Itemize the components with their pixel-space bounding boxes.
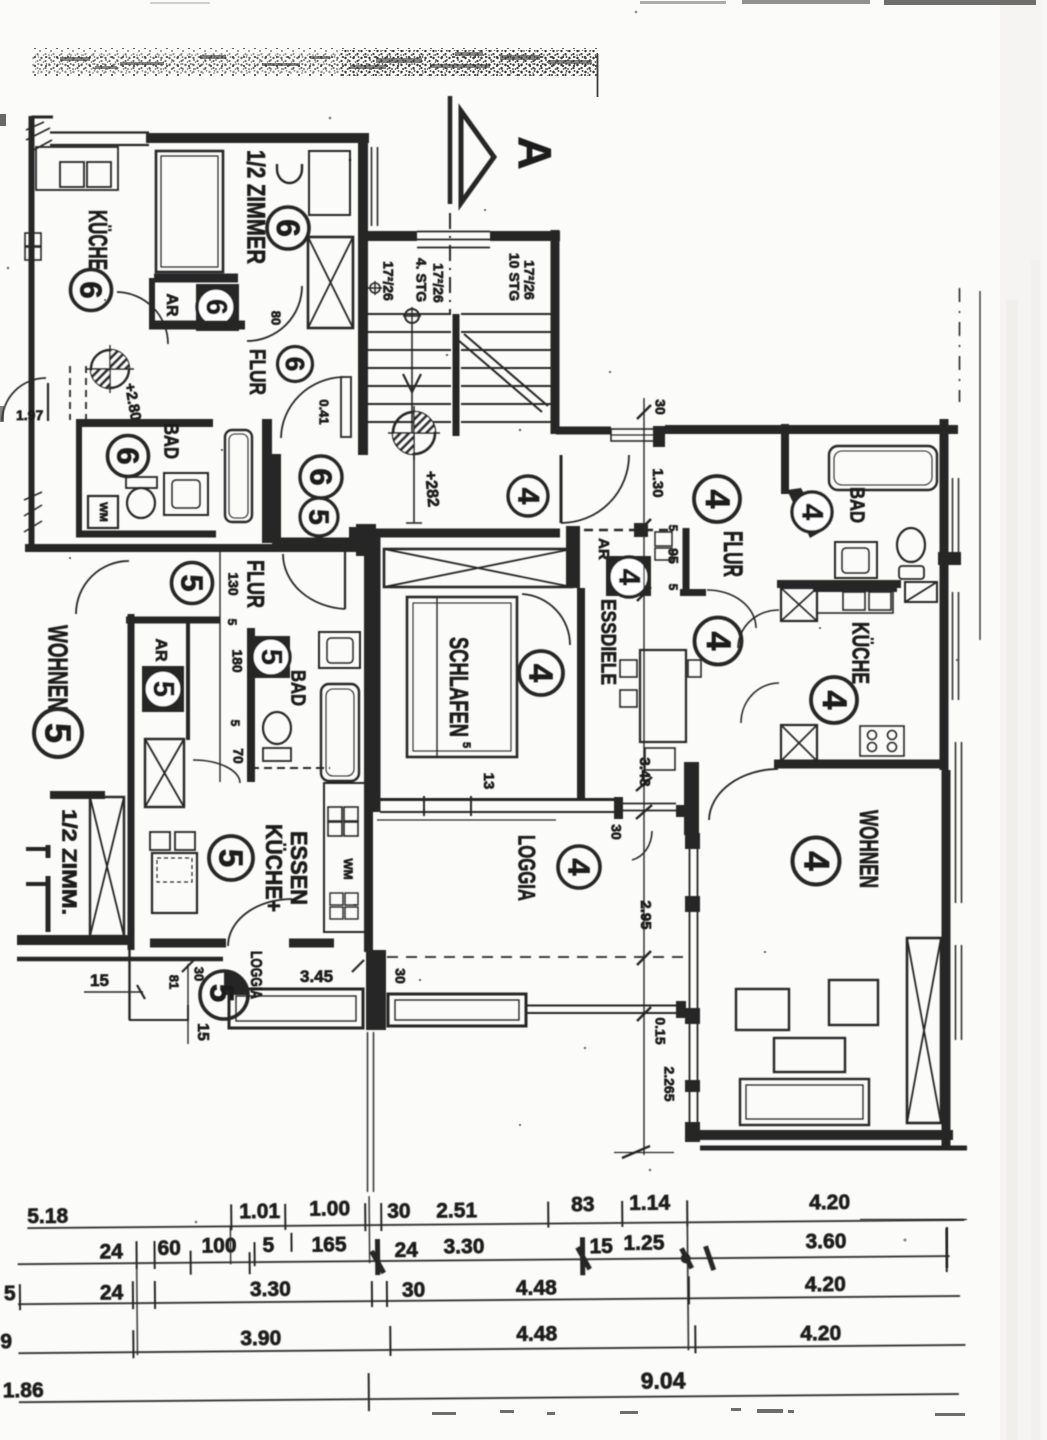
svg-text:FLUR: FLUR [245,349,270,395]
svg-text:4.20: 4.20 [800,1322,841,1345]
svg-text:2.265: 2.265 [661,1066,677,1101]
dim row 4 line [18,1345,965,1353]
level marker circle flur6 [86,345,134,393]
AR6 left wall [149,278,155,325]
svg-text:4. STG: 4. STG [413,258,429,302]
bad4 bottom wall [777,580,901,588]
tick y812 [636,805,652,819]
svg-text:2.95: 2.95 [637,900,654,929]
svg-text:81: 81 [167,975,182,989]
zimm5 west wall lower [46,876,51,932]
dim line vertical loggia5 [187,964,189,1044]
svg-text:3.90: 3.90 [240,1327,281,1350]
x-box küche4 bottom [781,725,817,761]
dashed line küche5 top [251,767,330,769]
svg-text:AR: AR [152,638,169,662]
circle 5 wohnen [34,709,82,757]
1/2 zimm top wall [50,791,105,799]
svg-text:4: 4 [699,632,737,651]
small cabinets essdiele [655,532,672,546]
door leaf black bad5 [252,636,290,678]
door arc küche5 bottom [228,899,292,946]
svg-text:4: 4 [512,488,545,505]
svg-text:WOHNEN: WOHNEN [43,625,74,711]
svg-text:165: 165 [311,1233,347,1256]
loggia5 left border [128,950,130,1020]
circle 4 loggia [558,846,600,888]
circle 4 essdiele [539,581,549,591]
wash basin [277,164,302,183]
circle 4 flur [694,476,740,522]
svg-text:FLUR: FLUR [242,560,269,608]
svg-text:3.30: 3.30 [250,1278,291,1301]
door arc schlafen [522,594,570,645]
circle 6 bad [108,436,149,477]
küche5 bottom wall left [150,939,226,948]
lobby left wall [272,454,281,547]
svg-text:5: 5 [4,1282,16,1305]
apt4 top wall [665,425,958,434]
circle 4 schlafen [519,651,563,695]
zimm5 west wall upper [46,845,51,858]
right wall apt6 / stair [358,142,368,455]
circle 5 AR [144,670,182,708]
mullion blocks [685,833,700,849]
window lines right [955,742,957,903]
corridor wall long [25,544,372,552]
bad6 bottom wall [76,531,216,538]
wc bad6 [126,477,157,488]
svg-text:9.04: 9.04 [641,1367,686,1393]
bed 1/2 zimmer [156,151,223,272]
circle 4 wohnen [793,838,840,885]
wc bad5 [263,712,291,744]
dashed line loggia4 [387,956,683,958]
sink bad5 [319,632,360,668]
door arc flur6 [247,286,302,341]
svg-text:4: 4 [523,664,560,683]
circle 5 küche [209,836,253,880]
apt4 entry door leaf [560,455,563,523]
window end post [614,797,623,819]
svg-text:5: 5 [666,584,680,591]
row2 ticks [136,1227,946,1279]
svg-text:5: 5 [304,509,335,525]
svg-text:5: 5 [225,619,239,626]
circle 6 AR [197,288,235,326]
shaft x-box apt6 [308,237,353,328]
svg-text:15: 15 [90,971,109,990]
lobby door leaf [341,377,351,437]
north arrow triangle [461,111,494,203]
black wall stub right of schlafen door [566,526,580,588]
svg-text:ESSEN: ESSEN [286,831,312,905]
svg-text:30: 30 [652,399,668,415]
svg-text:30: 30 [402,1279,426,1302]
svg-text:KÜCHE: KÜCHE [847,622,874,684]
door arc küche4 left [741,683,779,723]
door arc küche5 top [193,760,240,783]
shaft with diagonal [905,582,937,602]
bathtub bad6 [225,430,252,522]
circle 4 küche [811,677,857,723]
svg-text:3.60: 3.60 [805,1230,846,1253]
svg-text:5: 5 [204,984,241,1002]
section mark small circle [370,283,380,293]
circle 5 flur5 [172,563,213,604]
shaft x-box ar5 [145,739,184,807]
svg-text:5: 5 [213,849,250,867]
svg-text:WOHNEN: WOHNEN [854,810,884,888]
svg-text:KÜCHE: KÜCHE [83,210,113,270]
schlafen left wall [372,529,381,812]
row3 ticks [20,1276,689,1310]
right outer wall upper [940,419,949,770]
dim row 5 line [19,1394,959,1402]
svg-text:A: A [509,136,561,169]
door leaf black AR6 [196,284,239,331]
dining chairs [150,832,170,850]
bad6 top wall [80,419,213,427]
thin outer boundary line [979,291,981,640]
küche4 bottom wall [774,760,944,769]
svg-text:5: 5 [460,742,472,748]
svg-text:5: 5 [228,720,242,727]
bed schlafen [407,597,517,757]
bad6 right wall [262,419,272,543]
door arc wohnen5 [76,561,129,614]
svg-text:1/2 ZIMMER: 1/2 ZIMMER [241,150,269,264]
circle 4 stair lobby [508,476,548,516]
right page shading [1000,0,1047,1440]
window lines bad4 [952,478,954,565]
svg-text:6: 6 [304,468,339,485]
svg-text:WM: WM [341,858,355,879]
svg-text:1.30: 1.30 [649,468,666,497]
wohnen4 right wall [942,770,951,1146]
stair top wall right part [490,231,560,241]
dining table küche5 [152,853,197,913]
bad6 left wall [76,419,82,536]
kitchen 6 counter [36,147,118,190]
circle 4 AR [609,557,649,597]
svg-text:4: 4 [613,569,646,586]
svg-text:17²/26: 17²/26 [521,260,537,300]
stair arrow [403,374,421,392]
stair right wall [551,230,560,434]
glazed west wall wohnen4 [689,769,691,1140]
svg-text:6: 6 [280,357,310,371]
svg-text:BAD: BAD [846,487,868,523]
bad5 left wall [247,628,255,782]
svg-text:130: 130 [225,572,241,596]
row5 tick [368,1373,370,1411]
wall corner mark top-left [33,117,53,133]
apt5 bottom outer line [17,957,223,962]
coffee table [774,1038,845,1072]
svg-text:3.48: 3.48 [636,757,653,786]
level line stair [413,454,415,523]
svg-text:9: 9 [0,1330,12,1353]
svg-text:5: 5 [262,1234,274,1257]
svg-text:FLUR: FLUR [718,531,748,577]
svg-text:0.41: 0.41 [317,399,332,424]
svg-text:30: 30 [192,967,207,981]
entry wall left of door [556,427,611,435]
bottom outer wall line [700,1146,967,1151]
door leaf black bad4 [787,488,824,538]
svg-text:30: 30 [387,1200,411,1223]
circle 4 bad [792,492,832,532]
svg-text:24: 24 [99,1240,123,1263]
circle 6 küche [71,270,112,311]
svg-text:4.20: 4.20 [805,1273,846,1296]
wohnen4 door arc [709,769,778,820]
extension line to dims left [367,1032,369,1192]
svg-text:1.14: 1.14 [629,1192,670,1215]
svg-text:15: 15 [589,1235,613,1258]
küche5 bottom wall right [289,939,334,948]
tick y784 [636,777,652,791]
left outer wall [29,116,35,548]
wc bad4 [897,528,925,562]
rail continuation lines [622,803,676,805]
svg-text:6: 6 [270,219,306,237]
door leaf black AR4 [606,556,651,596]
apt4 entry door arc [561,455,629,523]
left edge marks [0,114,6,126]
svg-text:1/2 ZIMM.: 1/2 ZIMM. [58,809,80,915]
window top (küche 6) [50,131,149,133]
circle 6 zimmer [267,207,309,249]
svg-text:15: 15 [194,1023,211,1041]
ar5 right wall [186,620,190,740]
svg-text:4.20: 4.20 [809,1191,850,1214]
kitchen counter strip küche5 [324,783,368,932]
newel circle [405,309,419,323]
rail loggia4 right [526,1005,683,1007]
scan noise band top [32,48,598,77]
stair treads left flight [368,314,451,422]
dim row 1 line [27,1220,964,1228]
circle 4 essdiele doorway [695,618,742,665]
extension line bottom right [860,1219,967,1221]
dining table essdiele [640,650,686,742]
row2 heavy ticks [371,1236,713,1277]
wall below bed [154,274,238,283]
north arrow dash-dot line [449,213,451,314]
top wall apt6 [146,133,369,143]
wardrobe [309,151,350,215]
door arc essdiele-flur [707,590,756,628]
dim row 2 line [18,1256,950,1264]
svg-text:5: 5 [38,723,79,743]
svg-text:LOGGIA: LOGGIA [513,835,540,901]
balustrade loggia4 [388,994,526,1026]
stair walk line [411,325,413,440]
vanity bad6 [164,473,208,515]
row4 ticks [133,1323,695,1358]
armchair 1 [736,989,789,1030]
ar5 left wall [128,614,135,950]
door arc flur5 entry [283,554,345,609]
svg-text:4: 4 [796,504,829,521]
svg-text:3.45: 3.45 [300,967,333,986]
svg-text:1.86: 1.86 [3,1379,44,1402]
svg-text:WM: WM [97,502,109,522]
bathtub bad4 [829,446,937,490]
svg-text:24: 24 [394,1239,418,1262]
tick y594 [637,587,651,601]
door arc left edge [2,378,46,421]
svg-text:100: 100 [201,1234,236,1257]
svg-text:30: 30 [608,824,624,840]
svg-text:BAD: BAD [287,670,309,706]
top edge dashes [640,1,726,4]
tick y1014 [637,1007,651,1021]
svg-text:3.30: 3.30 [443,1235,484,1258]
dim line below [84,991,143,993]
svg-text:1.25: 1.25 [623,1232,664,1255]
dashed lines flur6 [69,366,71,420]
svg-text:60: 60 [157,1237,181,1260]
svg-text:4: 4 [815,691,853,710]
stair center divider [453,314,460,436]
dash-dot boundary [959,288,961,402]
circle 6 lobby [300,456,342,498]
svg-text:80: 80 [269,311,284,325]
noise band end line [597,54,599,97]
svg-text:13: 13 [480,773,497,790]
svg-text:4.48: 4.48 [516,1277,557,1300]
dim line vertical flur5 [219,552,221,782]
wohnen4 bottom wall [693,1130,953,1140]
small arc at dim line [632,831,652,860]
svg-text:17²/26: 17²/26 [430,263,446,303]
circle 5 loggia dark [224,971,248,995]
lobby door arc [281,377,343,438]
loggia4 left wall block [366,950,386,1030]
window lines küche4 [952,592,954,700]
main vertical dim line [643,398,645,1155]
svg-text:AR: AR [163,293,180,317]
essdiele wall right [683,528,690,596]
wall below AR [149,321,245,330]
balustrade loggia5 [229,989,363,1028]
svg-text:5: 5 [666,525,680,532]
door arc küche6 [117,292,168,344]
shaft x-box zimm5 [90,797,124,936]
svg-text:6: 6 [200,299,232,315]
svg-text:+282: +282 [421,470,441,507]
svg-text:5.18: 5.18 [27,1205,68,1228]
apt5 bottom wall [17,935,130,945]
circle 5 bad [252,638,290,676]
svg-text:1.01: 1.01 [239,1200,280,1223]
bad4 left wall [781,424,789,494]
svg-text:5: 5 [175,574,210,591]
door arc küche4 [738,610,779,648]
svg-text:4: 4 [797,851,836,871]
svg-text:5: 5 [147,681,179,697]
wohnen4 west wall solid top [684,762,699,835]
loggia5 bottom step line [129,1005,188,1020]
svg-text:4.48: 4.48 [516,1323,557,1346]
scattered specks [7,11,959,1242]
svg-text:0.15: 0.15 [652,1017,668,1044]
bathtub bad5 [321,684,359,781]
stair diagonal rail [458,340,542,412]
wall bridge corridor-schlafen [356,524,376,556]
sink bad4 [835,542,877,578]
circle 5 lobby [300,498,338,536]
dim row 3 line [18,1296,960,1304]
wardrobe x-box schlafen [384,549,572,587]
stair top window [417,232,490,248]
svg-text:5: 5 [255,649,287,665]
stair top wall left part [368,231,417,241]
bottom speckle dashes [432,1408,965,1416]
schlafen top wall [358,529,560,538]
svg-text:4: 4 [562,858,597,876]
wall below flur5 [126,617,220,624]
svg-text:1.97: 1.97 [16,407,43,423]
armchair 2 [829,980,878,1025]
svg-text:95: 95 [665,548,681,564]
stair treads right flight [461,314,551,422]
counter küche4 [817,589,893,613]
schlafen window bottom [380,798,614,801]
stove küche4 [860,726,904,756]
black block lobby [349,527,365,547]
dim ticks loggia5 [182,960,194,972]
row1 ticks [231,1200,687,1232]
svg-text:17²/26: 17²/26 [380,261,396,301]
washing machine WM [88,496,118,528]
circle 4 essdiele main [583,542,585,544]
svg-text:83: 83 [571,1193,595,1216]
svg-text:24: 24 [100,1281,124,1304]
schlafen right wall [577,588,585,800]
svg-text:4: 4 [698,490,736,509]
vertical connectors [687,1222,688,1350]
door leaf black AR5 [142,666,184,712]
level marker stair [388,406,440,460]
svg-text:1.00: 1.00 [309,1197,350,1220]
dashed wall AR4 [584,529,668,531]
svg-text:6: 6 [74,281,109,298]
svg-text:180: 180 [229,649,245,673]
window right of apt6 [371,147,373,226]
svg-text:SCHLAFEN: SCHLAFEN [444,637,474,737]
entry door house [611,429,657,441]
svg-text:30: 30 [392,968,408,984]
circle 6 flur [278,347,313,382]
svg-text:ESSDIELE: ESSDIELE [596,599,619,685]
tick y958 [637,951,651,965]
tick y1150 [622,1146,650,1158]
x-box küche4 top [781,588,817,621]
svg-text:6: 6 [111,447,146,464]
svg-text:70: 70 [230,748,246,764]
kitchen 6 stove at wall [25,233,41,246]
svg-text:10 STG: 10 STG [506,253,522,301]
bad5 right wall spine [364,552,373,952]
svg-text:BAD: BAD [160,423,182,459]
loggia4 sill line [377,819,556,821]
window hatches left lower [24,492,42,532]
north arrow shaft [448,96,453,204]
